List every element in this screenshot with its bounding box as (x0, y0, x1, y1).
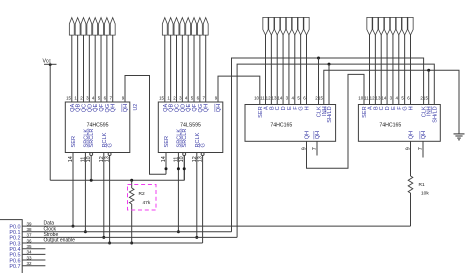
junction U2 G / Output enable (108, 242, 111, 245)
J3 pin 8 (304, 17, 309, 35)
inversion bubble pin 10 SRCLR (183, 153, 186, 156)
J2 pin 1 (162, 18, 167, 35)
IC 74HC165 body (245, 105, 336, 142)
J3 pin 1 (263, 17, 268, 35)
wire U2 SRCLR (pin 10) to Vcc rail (90, 156, 92, 181)
wire J2 -> LS595 QH (205, 35, 207, 102)
J2 pin 3 (174, 18, 179, 35)
svg-text:QH: QH (305, 131, 311, 139)
wire J2 -> LS595 QD (181, 35, 183, 102)
IC 74HC165 body (358, 105, 440, 142)
svg-text:QH: QH (204, 104, 210, 112)
resistor R2 47k (pull-up on output enable) (131, 180, 133, 188)
wire J4 -> U4 C (380, 35, 382, 105)
svg-text:74HC165: 74HC165 (379, 122, 401, 128)
J2 pin 6 (192, 18, 197, 35)
J3 pin 7 (298, 17, 303, 35)
svg-text:15: 15 (66, 96, 71, 101)
IC 74LS595 body (158, 102, 223, 153)
J4 pin 3 (379, 17, 384, 35)
ground (454, 133, 465, 135)
junction U2 RCLK / Strobe (102, 236, 105, 239)
wire J3 -> U3 B (270, 35, 272, 105)
wire LS595 G (pin 13) to Output enable end (202, 156, 204, 244)
wire J4 -> U4 F (398, 35, 400, 105)
wire U4 QH' (pin 7) stub (422, 141, 424, 157)
svg-text:SER: SER (71, 136, 77, 148)
svg-text:SRCLR: SRCLR (89, 129, 95, 148)
wire U3 SH/LD stub (328, 64, 330, 104)
wire LS595 SRCLR (pin 10) to Vcc rail end (183, 156, 185, 181)
wire J3 -> U3 C (276, 35, 278, 105)
junction U3 SH/LD / shld line (328, 63, 331, 66)
wire J2 -> LS595 QF (193, 35, 195, 102)
svg-text:37: 37 (27, 233, 33, 238)
wire LS595 SER (pin 14) stub (165, 153, 167, 175)
wire P0.4 stub (22, 248, 45, 250)
wire U2 SRCLK (pin 11) to Clock (84, 153, 86, 232)
svg-text:13: 13 (376, 96, 381, 101)
svg-text:15: 15 (159, 96, 164, 101)
wire Vcc down to supply rail (49, 64, 51, 180)
J1 pin 7 (104, 18, 109, 35)
wire U3 QH (pin 9) to U4 SER (307, 74, 365, 168)
svg-text:U2: U2 (133, 104, 139, 111)
J3 pin 2 (269, 17, 274, 35)
svg-text:36: 36 (27, 238, 33, 243)
J4 pin 5 (390, 17, 395, 35)
svg-text:R1: R1 (419, 182, 425, 188)
wire J1 -> U2 QA (71, 35, 73, 102)
wire U2 SER (pin 14) to Data (72, 153, 74, 227)
wire Vcc horizontal rail (50, 179, 184, 181)
svg-text:11: 11 (260, 96, 265, 101)
J1 pin 5 (93, 18, 98, 35)
wire U2 G (pin 13) to Output enable (109, 156, 111, 244)
wire J1 -> U2 QC (82, 35, 84, 102)
J4 pin 7 (402, 17, 407, 35)
J4 pin 2 (373, 17, 378, 35)
svg-text:39: 39 (27, 221, 33, 226)
J1 pin 1 (69, 18, 74, 35)
svg-text:74HC595: 74HC595 (87, 122, 109, 128)
svg-text:SH/LD: SH/LD (327, 106, 333, 122)
wire U4 INH stub (428, 70, 430, 104)
wire Clock bus line (22, 231, 231, 233)
svg-text:47k: 47k (143, 200, 151, 206)
wire J3 -> U3 F (294, 35, 296, 105)
resistor R1 10k (in series with U4 QH) (410, 141, 412, 176)
svg-text:QH: QH (123, 104, 129, 112)
J3 pin 4 (280, 17, 285, 35)
wire J2 -> LS595 QB (170, 35, 172, 102)
J1 pin 3 (81, 18, 86, 35)
svg-text:12: 12 (370, 96, 375, 101)
inversion bubble pin 10 SRCLR (90, 153, 93, 156)
J1 pin 4 (87, 18, 92, 35)
wire J3 -> U3 D (282, 35, 284, 105)
svg-text:SER: SER (164, 136, 170, 148)
wire U2 QH' (pin 9) to LS595 SER (125, 76, 166, 175)
wire U2 RCLK (pin 12) to Strobe (103, 153, 105, 238)
svg-text:14: 14 (381, 96, 386, 101)
wire J1 -> U2 QD (88, 35, 90, 102)
svg-text:R2: R2 (139, 191, 145, 197)
wire J1 -> U2 QG (106, 35, 108, 102)
svg-text:32: 32 (27, 261, 33, 266)
J2 pin 4 (180, 18, 185, 35)
wire J3 -> U3 A (265, 35, 267, 105)
junction LS595 RCLK / Strobe (195, 236, 198, 239)
wire J2 -> LS595 QG (199, 35, 201, 102)
J1 pin 8 (110, 18, 115, 35)
J4 pin 4 (384, 17, 389, 35)
wire J1 -> U2 QE (94, 35, 96, 102)
wire LS595 RCLK (pin 12) to Strobe (196, 153, 198, 238)
wire J1 -> U2 QH (112, 35, 114, 102)
junction R2 top to Vcc rail (130, 179, 133, 182)
junction U4 INH / INH net (427, 69, 430, 72)
svg-text:Output enable: Output enable (44, 238, 76, 244)
svg-text:35: 35 (27, 244, 33, 249)
wire J1 -> U2 QB (77, 35, 79, 102)
junction on LS595 SRCLR wire (183, 167, 186, 170)
wire LS595 QH' (pin 9) to U3 SER (218, 76, 260, 104)
J2 pin 8 (203, 18, 208, 35)
wire J3 -> U3 G (300, 35, 302, 105)
J3 pin 6 (292, 17, 297, 35)
J4 pin 8 (408, 17, 413, 35)
wire P0.7 stub (22, 265, 45, 267)
wire J2 -> LS595 QC (175, 35, 177, 102)
wire Strobe riser to 165 SH/LD line (237, 64, 434, 237)
J2 pin 5 (186, 18, 191, 35)
wire LS595 SRCLK (pin 11) to Clock (177, 153, 179, 232)
wire J4 -> U4 A (369, 35, 371, 105)
wire Output enable bus line (22, 242, 202, 244)
svg-text:H: H (408, 106, 414, 110)
wire Data bus line (P0.0 to R1) (22, 225, 410, 227)
svg-text:G: G (201, 143, 207, 147)
svg-text:P0.7: P0.7 (9, 264, 20, 270)
wire J3 -> U3 H (305, 35, 307, 105)
J4 pin 1 (367, 17, 372, 35)
wire J3 -> U3 E (288, 35, 290, 105)
svg-text:14: 14 (277, 96, 282, 101)
wire J4 -> U4 B (374, 35, 376, 105)
svg-text:13: 13 (272, 96, 277, 101)
selection box around R2 (128, 185, 157, 211)
J1 pin 2 (75, 18, 80, 35)
inversion bubble pin 13 G (108, 153, 111, 156)
J1 pin 6 (99, 18, 104, 35)
junction U3 CLK / clock line (317, 57, 320, 60)
svg-text:QH: QH (111, 104, 117, 112)
wire J1 -> U2 QF (100, 35, 102, 102)
svg-text:33: 33 (27, 255, 33, 260)
wire P0.6 stub (22, 259, 45, 261)
wire INH net to ground (324, 70, 459, 133)
svg-text:38: 38 (27, 227, 33, 232)
J3 pin 3 (275, 17, 280, 35)
svg-text:SH/LD: SH/LD (432, 106, 438, 122)
wire J4 -> U4 E (392, 35, 394, 105)
wire J4 -> U4 G (404, 35, 406, 105)
junction R2 / Output enable (130, 242, 133, 245)
svg-text:11: 11 (364, 96, 369, 101)
inversion bubble pin 13 G (201, 153, 204, 156)
IC 8051 port P0 connector body (0, 220, 22, 273)
wire rail end up to LS595 SRCLR (183, 156, 185, 181)
svg-text:H: H (304, 106, 310, 110)
J4 pin 6 (396, 17, 401, 35)
wire Strobe bus line (22, 236, 237, 238)
wire Clock riser to 165 CLK line (232, 58, 424, 232)
svg-text:G: G (108, 143, 114, 147)
svg-text:12: 12 (266, 96, 271, 101)
junction U2 SRCLK / Clock (84, 230, 87, 233)
svg-text:74LS595: 74LS595 (180, 122, 201, 128)
svg-text:SRCLR: SRCLR (182, 129, 188, 148)
wire P0.5 stub (22, 253, 45, 255)
J3 pin 5 (286, 17, 291, 35)
wire U3 CLK stub (318, 58, 320, 105)
wire J2 -> LS595 QA (164, 35, 166, 102)
svg-text:74HC165: 74HC165 (270, 122, 292, 128)
J2 pin 7 (197, 18, 202, 35)
junction on LS595 SRCLK wire (177, 167, 180, 170)
junction LS595 SRCLK / Clock (177, 230, 180, 233)
J2 pin 2 (168, 18, 173, 35)
IC 74HC595 body (65, 102, 130, 153)
svg-text:10k: 10k (421, 191, 429, 197)
wire J2 -> LS595 QE (187, 35, 189, 102)
svg-text:34: 34 (27, 250, 33, 255)
svg-text:10: 10 (254, 96, 259, 101)
wire J4 -> U4 H (409, 35, 411, 105)
svg-text:10: 10 (358, 96, 363, 101)
junction U2 SRCLR to Vcc rail (90, 179, 93, 182)
svg-text:QH: QH (409, 131, 415, 139)
svg-text:QH: QH (315, 131, 321, 139)
wire U3 QH' (pin 7) stub (316, 141, 318, 155)
wire J4 -> U4 D (386, 35, 388, 105)
svg-text:QH: QH (421, 131, 427, 139)
junction U2 SER / Data (72, 225, 75, 228)
junction on LS595 SER wire (165, 167, 168, 170)
svg-text:QH: QH (216, 104, 222, 112)
